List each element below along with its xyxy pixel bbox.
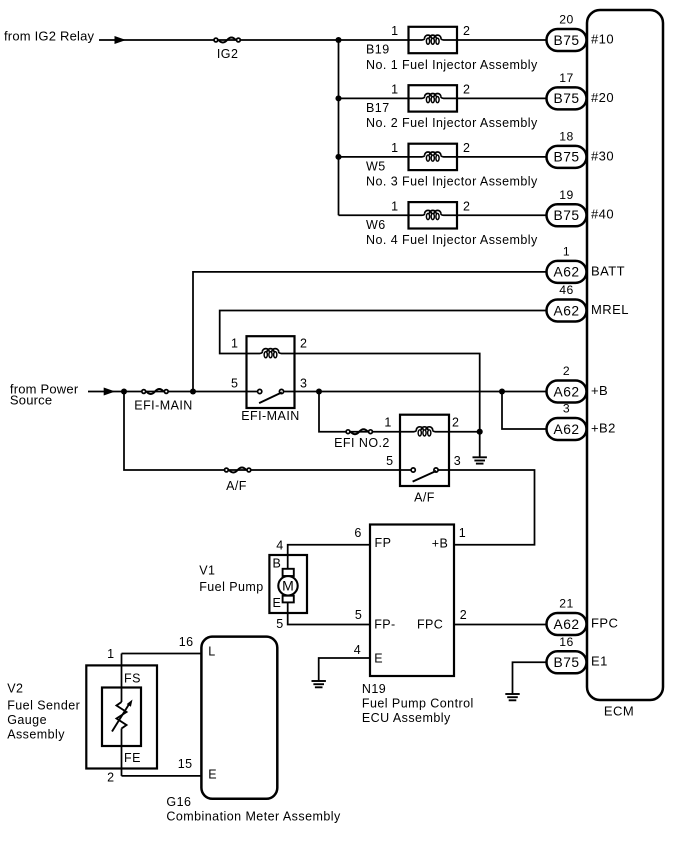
svg-text:B17: B17 [366, 101, 390, 115]
svg-text:W5: W5 [366, 160, 386, 174]
svg-text:No. 4 Fuel Injector Assembly: No. 4 Fuel Injector Assembly [366, 233, 538, 247]
svg-text:FP: FP [375, 536, 392, 550]
svg-text:2: 2 [107, 771, 114, 785]
svg-text:2: 2 [460, 608, 467, 622]
svg-text:B75: B75 [554, 150, 580, 165]
svg-text:2: 2 [452, 416, 459, 430]
svg-text:ECM: ECM [604, 703, 634, 718]
svg-text:B19: B19 [366, 43, 390, 57]
svg-text:A62: A62 [554, 422, 580, 437]
svg-text:2: 2 [463, 199, 470, 213]
svg-text:1: 1 [384, 416, 391, 430]
svg-text:L: L [208, 645, 215, 659]
svg-text:No. 1 Fuel Injector Assembly: No. 1 Fuel Injector Assembly [366, 58, 538, 72]
svg-text:E: E [208, 768, 217, 782]
svg-text:+B: +B [591, 383, 608, 398]
svg-text:E1: E1 [591, 654, 608, 669]
svg-text:EFI-MAIN: EFI-MAIN [134, 399, 192, 413]
svg-text:16: 16 [559, 635, 573, 649]
svg-text:#10: #10 [591, 31, 614, 46]
svg-text:1: 1 [459, 526, 466, 540]
svg-text:46: 46 [559, 283, 573, 297]
svg-text:16: 16 [179, 635, 194, 649]
svg-text:FPC: FPC [417, 618, 443, 632]
svg-text:3: 3 [454, 454, 461, 468]
svg-text:1: 1 [391, 24, 398, 38]
svg-text:A62: A62 [554, 617, 580, 632]
svg-text:6: 6 [354, 526, 361, 540]
svg-text:3: 3 [300, 376, 307, 390]
svg-text:Combination Meter Assembly: Combination Meter Assembly [166, 810, 341, 824]
svg-text:4: 4 [354, 643, 361, 657]
svg-text:G16: G16 [166, 795, 191, 809]
svg-text:B: B [273, 557, 282, 571]
svg-text:V1: V1 [199, 564, 215, 578]
svg-text:MREL: MREL [591, 302, 629, 317]
svg-text:B75: B75 [554, 91, 580, 106]
svg-text:from IG2 Relay: from IG2 Relay [4, 29, 95, 44]
svg-text:A/F: A/F [414, 490, 435, 504]
svg-text:1: 1 [391, 199, 398, 213]
svg-text:19: 19 [559, 188, 573, 202]
svg-text:A62: A62 [554, 303, 580, 318]
svg-text:E: E [273, 596, 282, 610]
svg-text:FPC: FPC [591, 615, 618, 630]
svg-text:+B: +B [432, 537, 449, 551]
svg-text:#20: #20 [591, 90, 614, 105]
svg-text:#40: #40 [591, 207, 614, 222]
svg-text:1: 1 [391, 141, 398, 155]
svg-text:W6: W6 [366, 218, 386, 232]
svg-text:2: 2 [463, 141, 470, 155]
svg-text:5: 5 [276, 617, 283, 631]
svg-text:Assembly: Assembly [7, 728, 65, 742]
svg-text:2: 2 [563, 364, 570, 378]
svg-text:5: 5 [231, 376, 238, 390]
svg-text:Source: Source [10, 393, 52, 408]
svg-text:Fuel Pump Control: Fuel Pump Control [362, 696, 474, 710]
svg-text:B75: B75 [554, 33, 580, 48]
svg-text:M: M [282, 578, 294, 594]
svg-text:FP-: FP- [374, 618, 396, 632]
svg-text:B75: B75 [554, 655, 580, 670]
svg-text:18: 18 [559, 129, 573, 143]
svg-text:Fuel Sender: Fuel Sender [7, 698, 80, 712]
svg-text:A62: A62 [554, 384, 580, 399]
svg-text:E: E [374, 652, 383, 666]
svg-text:Fuel Pump: Fuel Pump [199, 580, 264, 594]
svg-text:V2: V2 [7, 682, 23, 696]
svg-text:B75: B75 [554, 208, 580, 223]
svg-text:21: 21 [559, 597, 573, 611]
svg-text:A62: A62 [554, 265, 580, 280]
svg-text:No. 2 Fuel Injector Assembly: No. 2 Fuel Injector Assembly [366, 116, 538, 130]
svg-text:EFI NO.2: EFI NO.2 [334, 436, 390, 450]
svg-text:Gauge: Gauge [7, 713, 47, 727]
svg-text:A/F: A/F [226, 479, 247, 493]
svg-text:2: 2 [300, 336, 307, 350]
svg-text:2: 2 [463, 83, 470, 97]
svg-text:N19: N19 [362, 682, 386, 696]
svg-text:EFI-MAIN: EFI-MAIN [241, 409, 299, 423]
svg-text:2: 2 [463, 24, 470, 38]
svg-text:15: 15 [178, 757, 193, 771]
svg-text:FE: FE [124, 751, 141, 765]
svg-text:20: 20 [559, 13, 573, 27]
svg-text:17: 17 [559, 71, 573, 85]
svg-text:BATT: BATT [591, 263, 625, 278]
svg-text:4: 4 [276, 539, 283, 553]
svg-text:5: 5 [355, 608, 362, 622]
svg-text:1: 1 [563, 244, 570, 258]
svg-text:3: 3 [563, 402, 570, 416]
svg-text:1: 1 [107, 647, 114, 661]
svg-text:1: 1 [391, 83, 398, 97]
svg-text:5: 5 [386, 454, 393, 468]
svg-text:ECU Assembly: ECU Assembly [362, 711, 451, 725]
svg-text:1: 1 [231, 336, 238, 350]
svg-text:IG2: IG2 [217, 47, 239, 61]
svg-text:+B2: +B2 [591, 420, 616, 435]
svg-text:No. 3 Fuel Injector Assembly: No. 3 Fuel Injector Assembly [366, 175, 538, 189]
svg-text:#30: #30 [591, 148, 614, 163]
svg-text:FS: FS [124, 671, 141, 685]
